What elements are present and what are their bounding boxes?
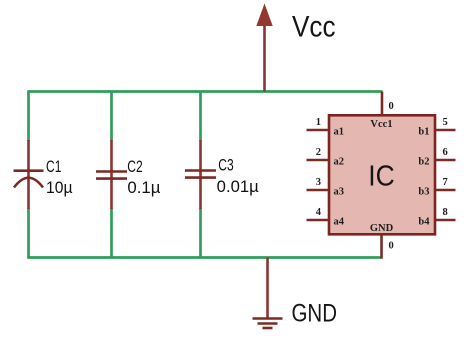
IC U1 body — [329, 115, 435, 234]
wire: C2 branch lower segment — [110, 208, 113, 259]
svg-text:C3: C3 — [218, 157, 233, 175]
ground symbol — [253, 258, 283, 329]
svg-text:0: 0 — [389, 241, 394, 252]
pin b4 stub — [435, 219, 456, 222]
svg-text:IC: IC — [368, 160, 395, 192]
svg-text:GND: GND — [370, 223, 394, 234]
svg-text:a4: a4 — [334, 216, 345, 227]
svg-text:b2: b2 — [418, 156, 429, 167]
svg-text:4: 4 — [316, 207, 322, 218]
wire: C2 branch upper segment — [110, 91, 113, 142]
svg-text:6: 6 — [443, 147, 448, 158]
wire: bottom ground rail — [28, 256, 383, 259]
wire: left branch lower segment (from C1) — [27, 208, 30, 259]
svg-text:3: 3 — [316, 177, 321, 188]
capacitor C2 — [96, 140, 127, 209]
svg-text:2: 2 — [316, 147, 321, 158]
pin a2 stub — [307, 159, 330, 162]
svg-text:7: 7 — [443, 177, 448, 188]
svg-text:a3: a3 — [334, 186, 345, 197]
wire: left branch upper segment (to C1) — [27, 91, 30, 142]
pin a3 stub — [307, 189, 330, 192]
wire: C3 branch lower segment — [199, 208, 202, 259]
svg-text:b3: b3 — [418, 186, 429, 197]
pin a4 stub — [307, 219, 330, 222]
power symbol Vcc (arrow) — [256, 4, 272, 92]
svg-text:8: 8 — [443, 207, 448, 218]
svg-text:0.01µ: 0.01µ — [217, 178, 259, 196]
pin b2 stub — [435, 159, 456, 162]
svg-text:b1: b1 — [418, 126, 429, 137]
svg-text:b4: b4 — [418, 216, 430, 227]
wire: top Vcc rail — [28, 90, 383, 93]
svg-text:C1: C1 — [46, 158, 61, 176]
svg-text:1: 1 — [316, 117, 321, 128]
svg-text:0: 0 — [389, 101, 394, 112]
svg-text:Vcc: Vcc — [292, 11, 336, 44]
svg-text:a2: a2 — [334, 156, 345, 167]
pin b3 stub — [435, 189, 456, 192]
svg-text:5: 5 — [443, 117, 448, 128]
svg-text:C2: C2 — [127, 158, 142, 176]
capacitor C3 — [185, 140, 216, 209]
pin b1 stub — [435, 129, 456, 132]
pin Vcc1 (top pin) — [381, 92, 384, 116]
pin GND (bottom pin) — [380, 234, 383, 259]
pin a1 stub — [307, 129, 330, 132]
svg-text:GND: GND — [292, 300, 338, 328]
wire: C3 branch upper segment — [199, 91, 202, 142]
capacitor C1 (polarized) — [14, 140, 44, 209]
svg-text:Vcc1: Vcc1 — [370, 119, 392, 130]
svg-text:a1: a1 — [334, 126, 345, 137]
svg-text:10µ: 10µ — [46, 179, 73, 197]
svg-text:0.1µ: 0.1µ — [127, 179, 160, 197]
